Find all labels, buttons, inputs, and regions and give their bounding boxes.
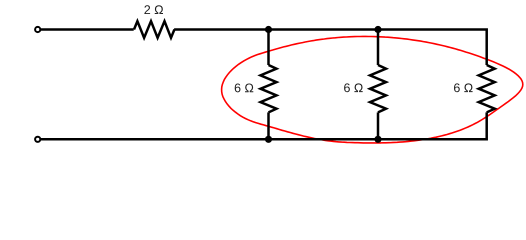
wire (R4 down to bottom-right corner, left to node D)	[378, 112, 487, 139]
terminal T1 (top-left, open circle)	[35, 27, 40, 32]
wire (R3 down to node D)	[377, 112, 380, 139]
resistor R4 (6 ohm, vertical zigzag, right branch)	[479, 65, 495, 112]
resistor R3 (6 ohm, vertical zigzag)	[370, 65, 386, 112]
node C (junction dot, bottom of R2)	[265, 136, 272, 143]
wire (top: node A to node B)	[269, 28, 379, 31]
wire (node B down to R3)	[377, 30, 380, 66]
label 6 Ω (value of R3)	[344, 83, 363, 92]
label 6 Ω (value of R2)	[235, 83, 254, 92]
node B (junction dot, top of R3)	[374, 26, 381, 33]
label 2 Ω (value of R1)	[144, 5, 163, 14]
wire (bottom: node C to terminal T2)	[40, 138, 268, 141]
resistor R1 (2 ohm, horizontal zigzag)	[134, 21, 174, 38]
wire (top: node B to top-right corner, down to R4)	[378, 30, 487, 66]
wire (bottom: node D to node C)	[269, 138, 379, 141]
wire (node A down to R2)	[267, 30, 270, 66]
highlight ellipse (red, around parallel resistors)	[222, 36, 523, 142]
node A (junction dot, top of R2)	[265, 26, 272, 33]
wire (R2 down to node C)	[267, 112, 270, 139]
wire (top: R1 to node A)	[174, 28, 268, 31]
resistor R2 (6 ohm, vertical zigzag)	[261, 65, 277, 112]
label 6 Ω (value of R4)	[454, 83, 473, 92]
node D (junction dot, bottom of R3)	[374, 136, 381, 143]
wire (top: terminal T1 to resistor R1)	[40, 28, 133, 31]
terminal T2 (bottom-left, open circle)	[35, 137, 40, 142]
